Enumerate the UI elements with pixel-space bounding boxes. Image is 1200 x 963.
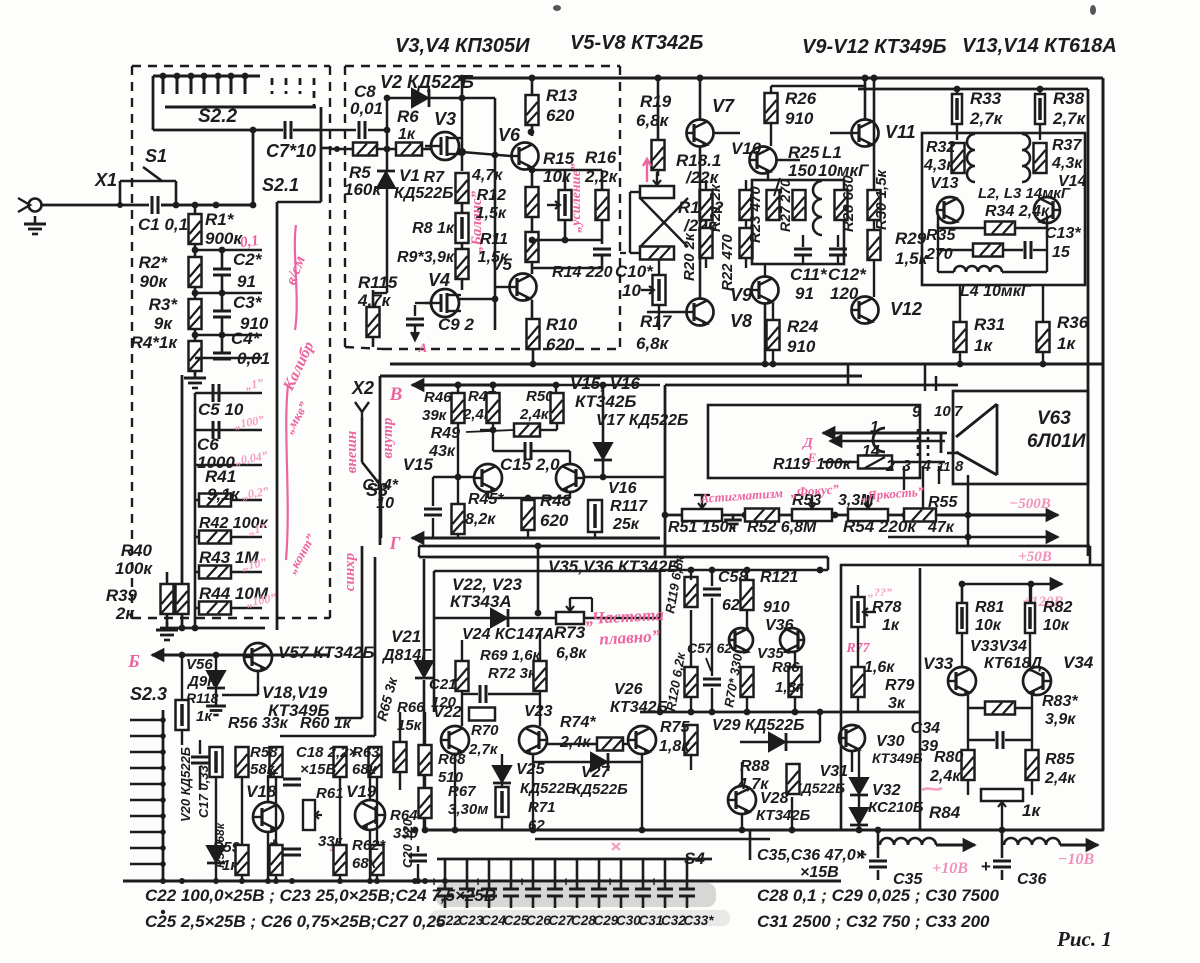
svg-text:6Л01И: 6Л01И [1027,431,1086,452]
svg-text:Х2: Х2 [351,378,374,398]
svg-text:R31: R31 [974,315,1005,334]
svg-text:V12: V12 [890,299,922,319]
svg-text:68к: 68к [352,761,378,778]
svg-text:V23: V23 [524,703,553,720]
svg-text:КТ349Б: КТ349Б [268,701,329,720]
svg-text:V8: V8 [730,311,752,331]
svg-text:L2, L3 14мкГ: L2, L3 14мкГ [978,185,1071,202]
svg-text:25к: 25к [612,516,640,533]
svg-text:R20 2к: R20 2к [681,232,698,281]
svg-text:С28 0,1 ; С29 0,025 ; С30: С28 0,1 ; С29 0,025 ; С30 7500 [757,886,999,905]
svg-text:2,7к: 2,7к [468,741,499,758]
svg-text:V9: V9 [730,285,752,305]
svg-text:С30: С30 [616,913,641,928]
svg-text:R118: R118 [186,690,219,706]
svg-text:620: 620 [540,511,569,530]
svg-text:V2 КД522Б: V2 КД522Б [380,72,474,92]
svg-text:V15: V15 [403,455,434,474]
svg-text:А: А [418,340,428,355]
svg-text:R73: R73 [554,623,586,642]
svg-text:Е: Е [807,450,817,465]
svg-text:R72 3к: R72 3к [488,665,537,682]
svg-text:V5-V8 КТ342Б: V5-V8 КТ342Б [570,32,703,54]
svg-text:R13: R13 [546,86,578,105]
svg-text:R81: R81 [975,599,1004,616]
svg-text:синхр: синхр [342,552,358,591]
svg-text:R84: R84 [929,803,961,822]
svg-text:КТ342Б: КТ342Б [756,807,811,824]
svg-text:С1 0,1: С1 0,1 [138,215,188,234]
svg-text:С10*: С10* [615,262,654,281]
svg-text:С36: С36 [1017,871,1046,888]
svg-text:R19: R19 [640,92,672,111]
svg-text:R121: R121 [760,569,798,586]
svg-text:V27: V27 [581,764,611,781]
svg-text:V31: V31 [820,763,849,780]
svg-text:68к: 68к [352,855,378,872]
svg-text:С35,С36 47,0×: С35,С36 47,0× [757,847,865,864]
svg-text:КД522Б: КД522Б [520,780,576,797]
svg-text:62: 62 [722,597,740,614]
svg-text:R16: R16 [585,148,617,167]
svg-text:2,4к: 2,4к [559,734,591,751]
svg-text:R66: R66 [397,699,425,716]
svg-text:V20 КД522Б: V20 КД522Б [178,747,193,822]
svg-text:150: 150 [788,161,817,180]
svg-text:Д: Д [801,436,813,451]
svg-text:V11: V11 [885,122,916,142]
svg-text:R64: R64 [390,807,418,824]
svg-text:9: 9 [912,404,921,421]
svg-text:2к: 2к [115,604,135,623]
svg-text:−10В: −10В [1058,851,1095,868]
svg-text:С57 62: С57 62 [687,640,732,656]
svg-text:Б: Б [127,651,139,671]
svg-text:×15В: ×15В [800,864,839,881]
svg-text:4,3к: 4,3к [923,157,955,174]
svg-text:V3,V4 КП305И: V3,V4 КП305И [395,35,530,57]
svg-text:С32: С32 [661,913,686,928]
svg-text:47к: 47к [927,519,955,536]
svg-text:R45*: R45* [468,491,504,508]
svg-text:910: 910 [763,599,790,616]
svg-text:L4 10мкГ: L4 10мкГ [960,283,1032,300]
svg-text:„??”: „??” [868,585,892,599]
svg-text:2,4к: 2,4к [929,768,961,785]
svg-text:С22 100,0×25В ; С23 25,0×2: С22 100,0×25В ; С23 25,0×25В;С24 7,5×25В [145,886,496,905]
svg-text:КД522Б: КД522Б [793,780,845,796]
svg-text:15: 15 [1052,244,1071,261]
svg-text:R28 680: R28 680 [840,175,857,232]
svg-text:4,7к: 4,7к [471,167,503,184]
svg-text:V18: V18 [246,782,277,801]
svg-text:С29: С29 [594,913,619,928]
svg-text:R115: R115 [358,273,398,292]
svg-text:R58: R58 [250,744,278,761]
svg-text:100к: 100к [115,559,153,578]
svg-text:910: 910 [785,109,814,128]
svg-text:С25 2,5×25В ; С26 0,75×25В;: С25 2,5×25В ; С26 0,75×25В;С27 0,25 [145,912,446,931]
svg-text:R55: R55 [928,494,958,511]
svg-text:V63: V63 [1037,408,1071,429]
svg-text:+50В: +50В [1018,549,1052,565]
svg-text:С26: С26 [526,913,551,928]
svg-text:+10В: +10В [932,860,968,877]
svg-text:С7*10: С7*10 [266,141,316,161]
svg-text:R41: R41 [205,467,236,486]
svg-text:S2.3: S2.3 [130,684,167,704]
svg-text:R78: R78 [872,599,901,616]
svg-text:R12: R12 [477,187,506,204]
svg-text:2,4к: 2,4к [519,406,550,423]
svg-text:1,5к: 1,5к [895,249,929,268]
svg-text:/22к: /22к [685,168,720,187]
svg-text:R22 470: R22 470 [719,234,736,291]
svg-text:R11: R11 [480,231,508,248]
svg-text:V57 КТ342Б: V57 КТ342Б [278,643,374,662]
svg-text:R26: R26 [785,89,817,108]
svg-text:КТ343А: КТ343А [450,592,512,611]
svg-text:С31 2500 ; С32 750 ; С33 2: С31 2500 ; С32 750 ; С33 200 [757,912,990,931]
svg-text:R21 2к: R21 2к [707,183,724,232]
svg-text:V4: V4 [428,270,450,290]
svg-text:39к: 39к [422,407,448,424]
svg-text:S2.2: S2.2 [198,106,238,127]
svg-text:8,2к: 8,2к [465,511,496,528]
svg-text:91: 91 [795,284,814,303]
svg-text:R75: R75 [660,719,690,736]
svg-text:внешн: внешн [344,431,360,474]
svg-text:620: 620 [546,106,575,125]
svg-text:R36: R36 [1057,313,1089,332]
svg-text:0,1: 0,1 [239,233,260,251]
svg-text:С24: С24 [481,913,506,928]
svg-text:R70: R70 [471,722,499,739]
svg-text:R14 220: R14 220 [552,264,613,281]
svg-text:V26: V26 [614,681,643,698]
svg-text:С28: С28 [571,913,596,928]
svg-text:V32: V32 [872,782,901,799]
svg-text:V19: V19 [346,782,377,801]
svg-text:10: 10 [622,281,641,300]
svg-text:1к: 1к [1057,334,1076,353]
svg-text:V22: V22 [433,704,462,721]
svg-text:10к: 10к [1043,617,1070,634]
svg-text:R46: R46 [424,389,452,406]
svg-text:V9-V12 КТ349Б: V9-V12 КТ349Б [802,36,947,58]
svg-text:R4*1к: R4*1к [131,333,179,352]
svg-text:2,7к: 2,7к [969,109,1004,128]
svg-text:„усиление”: „усиление” [569,163,584,232]
svg-text:R49: R49 [431,425,460,442]
svg-text:С13*: С13* [1045,225,1081,242]
svg-text:×15В: ×15В [300,761,336,778]
svg-text:R80: R80 [934,749,963,766]
svg-text:R119: R119 [773,456,810,473]
svg-text:R48: R48 [540,491,572,510]
svg-text:R32: R32 [926,139,955,156]
svg-text:R88: R88 [740,758,769,775]
svg-text:R35: R35 [926,227,956,244]
svg-text:4,3к: 4,3к [1051,155,1083,172]
svg-text:R3*: R3* [149,295,179,314]
svg-text:1,6к: 1,6к [864,659,895,676]
svg-text:С33*: С33* [684,913,715,928]
svg-text:R79: R79 [885,677,914,694]
svg-text:V29: V29 [712,717,741,734]
svg-text:С3*: С3* [233,293,263,312]
svg-text:С2*: С2* [233,250,263,269]
svg-text:Г: Г [389,533,401,553]
svg-text:КД522Б: КД522Б [745,717,804,734]
svg-text:R85: R85 [1045,751,1075,768]
svg-text:1к: 1к [1022,801,1041,820]
svg-text:3к: 3к [888,695,906,712]
svg-text:R51 150к: R51 150к [668,519,737,536]
svg-text:R33: R33 [970,89,1002,108]
svg-text:14: 14 [862,443,880,460]
svg-text:100к: 100к [816,456,852,473]
svg-text:КТ342Б: КТ342Б [575,392,636,411]
svg-text:V25: V25 [516,761,546,778]
svg-text:V30: V30 [876,733,905,750]
svg-text:R74*: R74* [560,714,596,731]
svg-text:8: 8 [955,458,964,475]
svg-text:С12*: С12* [828,265,867,284]
svg-text:1к: 1к [882,617,900,634]
svg-text:330: 330 [393,825,419,842]
svg-text:V10: V10 [731,139,762,158]
svg-text:С11*: С11* [790,265,828,284]
svg-text:КТ342Б: КТ342Б [610,699,668,716]
svg-text:90к: 90к [139,272,168,291]
svg-text:3,9к: 3,9к [1045,711,1076,728]
svg-text:V16: V16 [608,480,637,497]
svg-text:V5: V5 [491,255,512,274]
svg-text:R27 270: R27 270 [777,179,793,232]
svg-text:0,01: 0,01 [350,99,383,118]
svg-text:В: В [389,384,403,405]
svg-text:2,7к: 2,7к [1052,109,1087,128]
svg-text:R23 470: R23 470 [747,186,764,243]
svg-text:R2*: R2* [139,253,169,272]
svg-text:КТ349Б: КТ349Б [872,750,923,766]
svg-text:С34: С34 [911,720,940,737]
svg-text:R39: R39 [106,586,138,605]
svg-text:С4*: С4* [231,329,261,348]
svg-text:С31: С31 [639,913,664,928]
svg-text:R68: R68 [438,751,466,768]
svg-text:V34: V34 [1063,653,1094,672]
svg-text:V7: V7 [712,96,735,116]
svg-text:V33: V33 [923,654,954,673]
svg-text:R38: R38 [1053,89,1085,108]
svg-text:Рис. 1: Рис. 1 [1056,927,1112,951]
svg-text:V17 КД522Б: V17 КД522Б [596,412,688,429]
svg-text:V3: V3 [434,109,456,129]
svg-text:1к: 1к [974,336,993,355]
svg-text:КС210Б: КС210Б [868,799,924,816]
svg-text:10: 10 [376,495,394,512]
svg-text:внутр: внутр [380,417,396,458]
svg-text:+: + [981,857,991,876]
svg-text:V13: V13 [930,175,959,192]
svg-text:160к: 160к [344,180,382,199]
svg-text:7: 7 [954,403,963,420]
svg-text:КД522Б: КД522Б [572,781,628,798]
svg-text:R1*: R1* [205,210,235,229]
svg-text:V6: V6 [498,125,521,145]
svg-text:R34 2,4к: R34 2,4к [985,203,1050,220]
svg-text:6,8к: 6,8к [636,334,670,353]
svg-text:С9 2: С9 2 [438,315,474,334]
svg-text:С15 2,0: С15 2,0 [500,455,560,474]
svg-text:V33V34: V33V34 [970,638,1027,655]
svg-text:V21: V21 [391,627,421,646]
svg-text:V13,V14 КТ618А: V13,V14 КТ618А [962,35,1117,57]
svg-text:S2.1: S2.1 [262,175,299,195]
svg-text:R82: R82 [1043,599,1072,616]
svg-text:R37: R37 [1052,137,1082,154]
svg-text:6,8к: 6,8к [556,645,587,662]
svg-text:С25: С25 [504,913,529,928]
svg-text:С18 2,2×: С18 2,2× [296,744,358,761]
svg-text:L1: L1 [822,143,842,162]
svg-text:R17: R17 [640,312,673,331]
svg-text:2: 2 [885,458,895,475]
svg-text:R7: R7 [424,169,446,186]
svg-text:2,4к: 2,4к [1044,770,1076,787]
svg-text:V18,V19: V18,V19 [262,683,328,702]
svg-text:9к: 9к [154,314,173,333]
svg-text:R40: R40 [121,541,153,560]
svg-text:1к: 1к [398,126,416,143]
svg-text:1,8к: 1,8к [775,679,805,696]
svg-text:R8 1к: R8 1к [412,220,455,237]
svg-text:R24: R24 [787,317,819,336]
svg-text:S4: S4 [684,849,705,868]
svg-text:R6: R6 [397,107,419,126]
svg-text:−500В: −500В [1009,496,1051,512]
svg-text:R30 1,5к: R30 1,5к [873,168,890,230]
svg-text:плавно”: плавно” [599,626,661,648]
svg-text:КТ618Д: КТ618Д [984,655,1043,672]
svg-text:R10: R10 [546,315,578,334]
svg-text:91: 91 [237,272,256,291]
svg-text:620: 620 [546,335,575,354]
svg-text:С23: С23 [459,913,484,928]
svg-text:900к: 900к [205,229,243,248]
svg-text:S1: S1 [145,146,167,166]
svg-text:910: 910 [787,337,816,356]
svg-text:1,5к: 1,5к [476,205,507,222]
svg-text:1,8к: 1,8к [659,738,690,755]
svg-text:+: + [270,765,279,782]
svg-text:R117: R117 [610,498,648,515]
svg-text:С14*: С14* [362,477,398,494]
svg-text:С6: С6 [197,435,219,454]
svg-text:6,8к: 6,8к [636,111,670,130]
svg-text:КД522Б: КД522Б [394,185,453,202]
svg-text:10: 10 [934,403,951,420]
svg-text:R67: R67 [448,783,476,800]
svg-text:Х1: Х1 [94,170,117,190]
svg-text:9,1к: 9,1к [207,485,241,504]
svg-text:V1: V1 [399,166,420,185]
svg-text:R83*: R83* [1042,693,1078,710]
svg-text:R9*3,9к: R9*3,9к [397,249,455,266]
svg-text:V15, V16: V15, V16 [570,374,640,393]
svg-text:10к: 10к [975,617,1002,634]
